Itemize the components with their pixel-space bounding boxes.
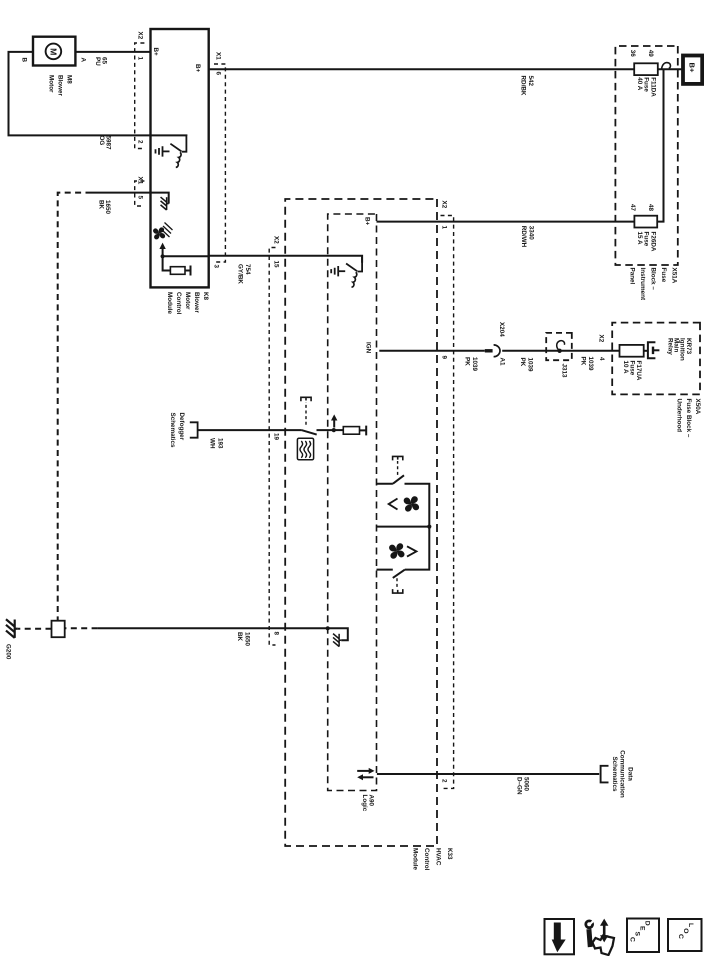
svg-text:8: 8 [272, 632, 279, 636]
svg-text:X2: X2 [136, 32, 143, 40]
fuse F17UA 10A [620, 345, 644, 357]
svg-text:X1: X1 [215, 52, 222, 60]
svg-text:RD/BK: RD/BK [520, 76, 527, 96]
wire 1650 BK K33 pin8 to splice [98, 627, 328, 629]
svg-text:6: 6 [215, 72, 222, 76]
motor symbol circle [46, 44, 62, 60]
svg-text:15 A: 15 A [636, 232, 643, 246]
wire junction to K8 resistor [163, 256, 171, 270]
data communication off-page bracket [601, 766, 609, 783]
wire 1650 BK K33 pin8 internal hook [328, 628, 348, 640]
fuse block internal bus wire [657, 69, 663, 221]
svg-text:5987: 5987 [105, 136, 112, 151]
svg-text:49: 49 [647, 50, 654, 58]
svg-text:RD/WH: RD/WH [520, 226, 527, 248]
svg-text:Instrument: Instrument [639, 268, 646, 301]
left switch linkage E bracket [393, 456, 403, 460]
svg-text:X2: X2 [598, 335, 605, 343]
svg-text:E: E [638, 926, 645, 931]
svg-text:BK: BK [98, 200, 105, 210]
splice J313 dot and hook [557, 349, 561, 353]
defogger off-page bracket [190, 422, 198, 437]
svg-text:Relay: Relay [666, 338, 673, 355]
wire 1650 BK from K8 pin5 [92, 192, 151, 194]
blower speed switch right blade [393, 570, 405, 578]
resistor top lead and cap [360, 426, 367, 436]
wire K8 pin3 internal [163, 255, 209, 257]
wire 193 WH defogger to K33 pin19 [198, 429, 302, 431]
svg-text:OG: OG [98, 136, 105, 146]
junction dot 1650 at A90 edge [326, 626, 330, 630]
logic block A90 dashed box [328, 214, 377, 791]
svg-text:O: O [682, 928, 689, 933]
junction dot 193 wire [332, 428, 336, 432]
right switch linkage dashes [396, 578, 398, 588]
svg-text:A: A [79, 58, 86, 63]
svg-text:M8: M8 [65, 75, 72, 84]
right switch linkage E bracket [393, 589, 403, 593]
svg-text:KR73: KR73 [685, 338, 692, 355]
svg-text:754: 754 [244, 264, 251, 275]
icon box DESC [627, 919, 659, 953]
chassis ground icon inside K33 [333, 634, 341, 647]
svg-text:Control: Control [175, 292, 182, 315]
high speed chevron [407, 546, 416, 556]
svg-text:48: 48 [647, 204, 654, 212]
in-line connector X204 terminal A1 [494, 345, 500, 357]
wire K8 pin5 internal hook [151, 193, 169, 204]
svg-text:1650: 1650 [243, 632, 250, 647]
svg-text:3: 3 [212, 265, 219, 269]
svg-text:40 A: 40 A [636, 77, 643, 91]
wire 3340 RD/WH fuse F26DA to K33 pin1 [377, 221, 635, 223]
dashed ground run to G200 [18, 628, 52, 630]
svg-text:Defogger: Defogger [178, 413, 185, 441]
defogger switch linkage E bracket [301, 397, 311, 401]
svg-text:193: 193 [216, 438, 223, 449]
in-line connector square on ground run [52, 621, 65, 638]
fan speed box 2 [377, 527, 430, 570]
svg-text:Module: Module [412, 848, 419, 871]
chassis ground icon inside K8 [161, 197, 169, 210]
svg-text:Underhood: Underhood [676, 399, 683, 433]
svg-text:HVAC: HVAC [435, 848, 442, 866]
svg-text:X50A: X50A [694, 399, 701, 415]
driver icon (switch coil ground) at K33 pin15 [331, 256, 362, 287]
connector X2 dashed line (K33 bottom) [269, 248, 275, 646]
svg-text:Fuse: Fuse [643, 232, 650, 247]
svg-text:1: 1 [136, 57, 143, 61]
fuse F11DA 40A [634, 63, 658, 75]
air flow strokes [162, 223, 173, 238]
svg-text:A1: A1 [499, 358, 506, 367]
resistor in K33 [343, 427, 359, 435]
svg-text:2: 2 [441, 779, 448, 783]
resistor lead and cap [185, 266, 191, 276]
svg-text:B+: B+ [688, 63, 697, 73]
svg-text:B+: B+ [194, 64, 201, 73]
B+ power feed box [683, 56, 702, 84]
connector X2 dashed line (K33 top) [440, 216, 453, 789]
icon wrench [586, 921, 593, 928]
wire 5987 OG motor B to K8 pin2 [9, 52, 151, 135]
defroster grid icon [297, 438, 313, 460]
module K8 blower motor control box [151, 29, 209, 287]
svg-text:B+: B+ [363, 217, 370, 226]
blower speed switch left blade [393, 475, 404, 483]
wire 5060 D-GN data link to K33 pin2 [377, 773, 599, 775]
svg-text:19: 19 [272, 433, 279, 441]
svg-text:PK: PK [519, 358, 526, 367]
wire 754 GY/BK K8 pin3 to K33 pin15 [209, 256, 362, 263]
connector X1 dashed line (K8 bottom pin5) [135, 181, 145, 206]
svg-text:B: B [20, 58, 27, 63]
svg-text:Schematics: Schematics [611, 756, 618, 791]
svg-text:2: 2 [136, 140, 143, 144]
blower motor M8 box [33, 37, 75, 66]
svg-text:1650: 1650 [104, 200, 111, 215]
dashed ground run from K8 pin5 [58, 193, 92, 621]
fuse block X51A dashed box [615, 46, 677, 265]
svg-text:C: C [628, 937, 635, 942]
dashed ground run from pin8 side [65, 627, 98, 629]
relay KR73 contact symbol [648, 342, 656, 358]
svg-text:Fuse: Fuse [628, 361, 635, 376]
svg-text:Logic: Logic [361, 795, 368, 812]
svg-text:X2: X2 [440, 201, 447, 209]
icon box LOC [668, 919, 702, 951]
svg-text:PK: PK [580, 357, 587, 366]
junction dot K8 internal [160, 254, 164, 258]
svg-text:A90: A90 [367, 795, 374, 807]
svg-text:X51A: X51A [671, 268, 678, 284]
svg-text:PU: PU [94, 57, 101, 66]
svg-text:B+: B+ [152, 48, 159, 57]
svg-text:X204: X204 [498, 322, 505, 337]
svg-text:1039: 1039 [587, 357, 594, 372]
wire 1039 PK fuse F17UA to X204 [502, 350, 619, 352]
fuse block X50A dashed box [612, 323, 700, 395]
svg-text:36: 36 [629, 50, 636, 58]
connector X2 dashed line (K8 bottom) [135, 43, 145, 149]
svg-text:Motor: Motor [47, 75, 54, 93]
svg-text:Fuse Block –: Fuse Block – [685, 399, 692, 438]
left switch linkage dashes [397, 461, 399, 475]
svg-text:Schematics: Schematics [169, 413, 176, 448]
resistor inside K8 [170, 267, 185, 275]
svg-text:X1: X1 [136, 177, 143, 185]
svg-text:X2: X2 [272, 236, 279, 244]
connector X1 dashed line (K8 top) [213, 64, 225, 262]
splice J313 dashed box [546, 333, 572, 360]
svg-text:1: 1 [440, 226, 447, 230]
svg-text:J313: J313 [561, 364, 568, 379]
svg-text:10 A: 10 A [622, 361, 629, 375]
svg-text:Data: Data [626, 767, 633, 781]
svg-text:K33: K33 [446, 848, 453, 860]
ground G200 symbol [6, 619, 18, 638]
svg-text:5060: 5060 [523, 777, 530, 792]
fan icon inside K8 [153, 227, 165, 239]
svg-text:Ignition: Ignition [679, 338, 686, 361]
driver icon (switch coil ground) at K8 pin2 [156, 136, 187, 167]
fan icon 1 [404, 496, 419, 511]
wire K8 pin2 internal [151, 134, 187, 137]
svg-text:C: C [677, 934, 684, 939]
wire 542 RD/BK fuse F11DA to K8 pin6 [209, 68, 635, 70]
svg-text:M: M [48, 48, 58, 55]
svg-text:F26DA: F26DA [650, 232, 657, 252]
svg-text:K8: K8 [202, 292, 209, 301]
svg-text:F11DA: F11DA [650, 77, 657, 97]
svg-text:542: 542 [527, 76, 534, 87]
svg-text:Module: Module [166, 292, 173, 315]
wire B+ feed into fuse block [658, 68, 683, 70]
arrow at 193 junction [333, 420, 335, 428]
icon double arrow [603, 925, 606, 937]
svg-text:BK: BK [236, 632, 243, 642]
svg-text:Motor: Motor [184, 292, 191, 310]
svg-text:Blower: Blower [193, 292, 200, 314]
svg-text:Panel: Panel [629, 268, 636, 285]
fan speed box 1 [377, 484, 430, 527]
wire 65 PU motor A to K8 pin1 [75, 51, 150, 53]
svg-text:Blower: Blower [56, 75, 63, 97]
svg-text:1039: 1039 [527, 358, 534, 373]
icon path outline [593, 936, 615, 956]
svg-text:3340: 3340 [528, 226, 535, 241]
arrow to fan inside K8 [162, 248, 164, 256]
svg-text:F17UA: F17UA [635, 361, 642, 381]
wire 1039 PK X204 to K33 pin9 [379, 350, 485, 352]
svg-text:WH: WH [208, 438, 215, 449]
icon box download arrow [545, 919, 575, 954]
svg-text:4: 4 [598, 357, 605, 361]
svg-text:Fuse: Fuse [643, 77, 650, 92]
svg-text:9: 9 [440, 356, 447, 360]
wire junction to resistor [334, 429, 344, 431]
svg-text:Block –: Block – [650, 268, 657, 291]
svg-text:G200: G200 [4, 644, 11, 660]
svg-text:Communication: Communication [619, 750, 626, 798]
fan icon 2 [389, 543, 404, 558]
wire relay to fuse F17UA [644, 350, 648, 352]
svg-text:5: 5 [136, 196, 143, 200]
low speed chevron [389, 499, 398, 510]
svg-text:1039: 1039 [471, 357, 478, 372]
svg-text:Main: Main [673, 338, 680, 352]
defogger switch blade [301, 430, 316, 435]
svg-text:PK: PK [463, 357, 470, 366]
module K33 HVAC dashed box [285, 199, 437, 846]
fuse F26DA 15A [634, 216, 657, 228]
svg-text:S: S [633, 932, 640, 937]
svg-text:IGN: IGN [364, 342, 371, 354]
bidirectional data arrows A90 [357, 770, 370, 772]
svg-text:D–GN: D–GN [515, 777, 522, 795]
bus hook symbol inside fuse block [662, 63, 671, 70]
svg-text:GY/BK: GY/BK [237, 264, 244, 284]
defogger switch linkage dashes [305, 402, 307, 425]
svg-text:15: 15 [272, 261, 279, 269]
svg-text:L: L [687, 923, 694, 927]
svg-text:47: 47 [629, 204, 636, 212]
svg-text:Fuse: Fuse [660, 268, 667, 283]
svg-text:65: 65 [101, 57, 108, 65]
wire 193 internal above switch [317, 429, 334, 431]
svg-text:Control: Control [423, 848, 430, 871]
junction dot fan boxes [427, 525, 431, 529]
